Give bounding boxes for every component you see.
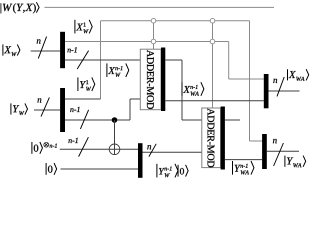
label n on merged bus xyxy=(147,145,151,149)
ket label |Y_W> xyxy=(11,103,28,115)
wire Y bus staircase xyxy=(130,99,140,120)
ket label |Y_WA^{n-1}> xyxy=(233,161,254,175)
ket label |0> bottom xyxy=(46,163,57,175)
bus split bar for Y_W xyxy=(60,88,65,132)
node W(Y,X) input label xyxy=(1,2,39,13)
slash n on Y input xyxy=(41,97,49,116)
wire U2 out stub xyxy=(225,119,240,121)
ket label |0>^{n-1} with otimes sup xyxy=(32,142,57,154)
CNOT target on ancilla bus xyxy=(109,144,120,155)
bus merge bar for ancilla xyxy=(138,143,143,178)
control circle on L1 at x212 xyxy=(210,18,215,23)
wire L1 left riser xyxy=(100,21,102,99)
bus merge bar for X_WA xyxy=(264,74,269,108)
control circle on L1 at x153 xyxy=(151,18,156,23)
wire L2 right drop to X_WA bar xyxy=(229,42,264,80)
control circle on L2 at x153 xyxy=(151,39,156,44)
label n-1 on X bus xyxy=(67,47,76,52)
wire Y_WA output xyxy=(267,150,299,152)
wire Y_W^{n-1} xyxy=(65,119,130,121)
wire L2 rail xyxy=(65,41,229,43)
wire U1 out X pass to U2 xyxy=(165,60,202,120)
wire X_W^{n-1} xyxy=(65,59,141,61)
slash n on X_WA output xyxy=(277,77,284,96)
slash n on X input xyxy=(38,37,46,59)
wire ancilla n-1 row xyxy=(60,148,138,150)
slash n-1 on ancilla row xyxy=(79,137,89,156)
wire W rail xyxy=(45,6,275,8)
label n-1 on Y bus xyxy=(70,107,79,112)
ket label |X_W^1> xyxy=(75,20,92,34)
wire X_W input xyxy=(31,50,61,52)
wire control riser to ADDER-MOD U2 xyxy=(212,21,214,108)
ADDER-MOD U2 box with output bar xyxy=(202,107,225,170)
wire U2 out Y_WA^{n-1} xyxy=(225,159,262,161)
ket label |X_W^{n-1}> xyxy=(107,63,129,77)
slash n-1 on X bus xyxy=(77,51,88,69)
label n on Y input xyxy=(38,98,42,102)
bus split bar for X_W xyxy=(60,32,65,68)
wire L1 right drop to Y_WA bar xyxy=(250,21,263,141)
slash n on merged bus xyxy=(149,144,156,157)
bus merge bar for Y_WA xyxy=(262,134,267,169)
wire control riser to ADDER-MOD U1 xyxy=(153,21,155,50)
label n-1 on ancilla row xyxy=(68,138,77,143)
wire Y_W^1 stub xyxy=(65,98,101,100)
wire ancilla single row xyxy=(61,168,139,170)
label n on X_WA output xyxy=(273,79,277,83)
control circle on L2 at x212 xyxy=(210,39,215,44)
wire X_WA output xyxy=(269,90,300,92)
slash n on Y_WA output xyxy=(274,143,284,166)
control dot on Y_W^{n-1} xyxy=(112,117,118,123)
ket label |Y_W^1> xyxy=(78,77,95,91)
ket label |Y_WA> xyxy=(285,156,306,168)
ADDER-MOD U1 box with output bar xyxy=(140,48,165,112)
ket label |X_WA^{n-1}> xyxy=(182,82,204,96)
slash n-1 on Y bus xyxy=(80,110,88,129)
ket label |Y_W^{n-1}>|0> xyxy=(157,164,188,178)
wire merged ancilla bus xyxy=(143,151,202,153)
label n on X input xyxy=(37,39,41,43)
wire Y_W input xyxy=(34,109,60,111)
ket label |X_W> xyxy=(3,44,20,56)
wire L1 rail xyxy=(101,20,250,22)
label n on Y_WA output xyxy=(273,139,277,143)
wire U1 out X_WA^{n-1} xyxy=(165,100,263,102)
ket label |X_WA> xyxy=(288,69,309,81)
wire CNOT vertical xyxy=(114,120,116,155)
